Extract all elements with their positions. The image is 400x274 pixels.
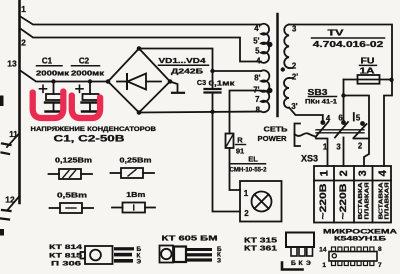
svg-text:1Вm: 1Вm [126, 192, 145, 199]
note capacitor voltage [31, 126, 157, 144]
svg-text:Д242Б: Д242Б [171, 67, 204, 76]
lamp EL [230, 155, 282, 222]
svg-text:8: 8 [378, 246, 382, 253]
wire left bus [18, 0, 21, 203]
IC K548UN1B [319, 229, 397, 270]
switch SB3 blades [316, 122, 367, 139]
svg-text:12: 12 [5, 195, 15, 205]
wire fuse to switch contact 6 [341, 80, 345, 123]
transistor package KT315 KT361 [244, 233, 314, 268]
svg-text:3: 3 [336, 143, 341, 152]
node 11 wire [2, 130, 20, 154]
svg-text:R: R [237, 136, 243, 145]
svg-text:2: 2 [21, 38, 26, 48]
svg-text:1: 1 [244, 189, 249, 198]
transformer TV secondary winding 8'-8 [253, 70, 272, 114]
legend resistor 0.25W [111, 158, 155, 179]
svg-text:0,25Вm: 0,25Вm [120, 158, 152, 165]
node 12 wire [1, 195, 20, 220]
svg-text:1: 1 [319, 170, 331, 176]
svg-text:ВСТАВКА: ВСТАВКА [358, 181, 364, 219]
XS3 cell texts [318, 181, 390, 219]
svg-text:4: 4 [256, 57, 261, 66]
svg-text:1: 1 [21, 4, 26, 14]
transformer TV secondary winding 4'-4 [253, 24, 272, 66]
svg-text:3': 3' [291, 102, 297, 111]
svg-text:14: 14 [319, 247, 327, 254]
node 1 wire [20, 4, 262, 25]
capacitor C1 [36, 57, 70, 112]
svg-text:8': 8' [254, 74, 260, 83]
transformer TV primary winding lower 2'-3' [284, 72, 298, 110]
svg-text:3: 3 [292, 25, 297, 34]
svg-text:4: 4 [377, 169, 389, 176]
bottom-left corner wire fragment [282, 263, 303, 270]
bridge rectifier VD1-VD4 [106, 46, 209, 115]
connector XS3 [301, 154, 391, 223]
svg-text:11: 11 [9, 130, 18, 139]
svg-text:2: 2 [244, 209, 249, 218]
svg-text:0,125Вm: 0,125Вm [55, 158, 92, 165]
svg-text:Э: Э [137, 259, 142, 266]
svg-text:2: 2 [292, 61, 297, 70]
svg-text:5: 5 [356, 113, 361, 122]
capacitor C2 [71, 57, 105, 112]
capacitor C3 [197, 78, 235, 93]
svg-text:П 306: П 306 [51, 261, 81, 268]
wire primary 3' to switch contact 4 [289, 108, 323, 123]
svg-text:POWER: POWER [258, 134, 288, 143]
svg-text:КТ 815: КТ 815 [49, 252, 82, 259]
red marker annotation around C1 [33, 92, 64, 119]
svg-text:C1: C1 [42, 57, 53, 66]
svg-text:СМН-10-55-2: СМН-10-55-2 [230, 167, 268, 174]
svg-text:1: 1 [323, 143, 328, 152]
svg-text:6: 6 [338, 114, 343, 123]
transformer core [276, 14, 279, 116]
wire C3 junction to winding 8' [213, 70, 262, 72]
svg-text:3: 3 [357, 170, 369, 176]
svg-text:7: 7 [378, 262, 382, 269]
svg-text:СЕТЬ: СЕТЬ [264, 125, 289, 134]
wire pin3 top to right bus [289, 25, 394, 167]
legend resistor 0.5W [50, 193, 94, 214]
svg-text:5': 5' [253, 37, 259, 46]
svg-text:ПЛАВКАЯ: ПЛАВКАЯ [364, 183, 370, 220]
svg-text:2: 2 [338, 170, 350, 176]
wire C3 bottom to lamp pin2 [210, 94, 240, 212]
svg-text:C3: C3 [197, 78, 206, 87]
label TV [312, 29, 385, 50]
svg-text:2000мк: 2000мк [36, 69, 70, 78]
red marker annotation around C2 [72, 96, 100, 119]
svg-text:FU: FU [361, 57, 375, 66]
wire bridge top to C3 [139, 49, 215, 89]
svg-text:C2: C2 [79, 57, 90, 66]
svg-text:~220В: ~220В [318, 183, 329, 219]
svg-text:2': 2' [292, 72, 298, 81]
svg-text:МИКРОСХЕМА: МИКРОСХЕМА [323, 229, 398, 236]
svg-text:4': 4' [254, 24, 260, 33]
resistor R91 [226, 134, 246, 156]
XS3 pin numbers [319, 169, 389, 176]
svg-text:2000мк: 2000мк [71, 69, 105, 78]
svg-text:0,5Вm: 0,5Вm [57, 193, 87, 200]
svg-text:SB3: SB3 [308, 88, 329, 97]
svg-text:Э: Э [306, 260, 311, 267]
edge smudge marks [0, 96, 4, 236]
switch SB3 contacts [320, 113, 365, 126]
svg-text:К548УН1Б: К548УН1Б [334, 236, 387, 243]
svg-text:1: 1 [322, 262, 326, 269]
svg-text:7: 7 [255, 95, 259, 104]
svg-text:8: 8 [256, 106, 261, 115]
svg-text:TV: TV [328, 29, 345, 38]
label SB3 [305, 88, 338, 106]
svg-text:З: З [217, 257, 221, 264]
svg-text:ПКн 41-1: ПКн 41-1 [305, 99, 338, 106]
svg-text:Б: Б [291, 260, 296, 267]
wire R91 to lamp pin1 [230, 148, 241, 190]
wire bridge bottom to winding 8 [139, 112, 261, 113]
legend resistor 0.125W [49, 158, 93, 180]
svg-text:13: 13 [7, 59, 17, 69]
svg-text:~220В: ~220В [338, 183, 349, 219]
svg-text:С1, С2-50В: С1, С2-50В [54, 134, 126, 144]
svg-text:1А: 1А [360, 66, 375, 76]
svg-text:7': 7' [253, 86, 259, 95]
switch bottom pins to XS3 [316, 138, 369, 167]
node 2 wire [20, 28, 262, 62]
svg-text:ПЛАВКАЯ: ПЛАВКАЯ [385, 183, 391, 220]
svg-text:91: 91 [236, 147, 244, 156]
svg-text:EL: EL [248, 155, 258, 164]
fuse FU [344, 57, 393, 84]
svg-text:XS3: XS3 [301, 154, 318, 164]
svg-text:КТ 361: КТ 361 [244, 244, 277, 253]
svg-text:4.704.016-02: 4.704.016-02 [313, 40, 384, 49]
wire junction to XS3 pin3 [344, 96, 370, 167]
mains label СЕТЬ POWER [258, 124, 317, 147]
wire winding tap 7' to R91 [230, 91, 262, 134]
transistor package KT605 [160, 234, 223, 265]
chassis terminator at bridge + [170, 82, 184, 93]
svg-text:НАПРЯЖЕНИЕ КОНДЕНСАТОРОВ: НАПРЯЖЕНИЕ КОНДЕНСАТОРОВ [31, 126, 157, 133]
svg-text:2: 2 [358, 142, 363, 151]
svg-text:0,1мк: 0,1мк [209, 79, 236, 88]
svg-text:КТ 605 БМ: КТ 605 БМ [162, 234, 218, 243]
svg-text:VD1...VD4: VD1...VD4 [159, 56, 207, 65]
transformer TV primary winding upper 3-2 [281, 25, 297, 72]
svg-text:КТ 814: КТ 814 [49, 244, 82, 251]
node 13 wire [7, 59, 108, 82]
legend resistor 1W [112, 192, 155, 213]
svg-text:5: 5 [255, 47, 260, 56]
transistor package KT814 KT815 P306 [49, 244, 142, 268]
